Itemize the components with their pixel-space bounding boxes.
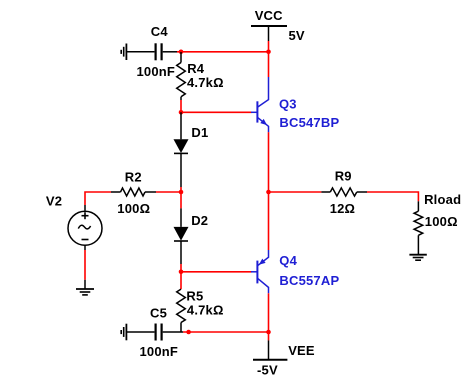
source V2 — [46, 193, 102, 250]
svg-text:C4: C4 — [151, 24, 169, 39]
node bottom right junction — [266, 330, 271, 335]
svg-text:BC547BP: BC547BP — [279, 115, 339, 130]
wire output to R9 — [269, 191, 322, 193]
node junction top right — [266, 50, 271, 55]
svg-text:5V: 5V — [289, 28, 305, 43]
node input junction — [179, 190, 184, 195]
svg-text:4.7kΩ: 4.7kΩ — [187, 75, 224, 90]
svg-text:100Ω: 100Ω — [425, 214, 458, 229]
wire R4 to node — [180, 100, 182, 112]
resistor Rload — [414, 192, 461, 254]
wire D2 to node — [180, 264, 182, 272]
diode D2 — [174, 192, 209, 264]
wire R9 to Rload — [367, 192, 418, 201]
capacitor C4 — [137, 24, 178, 79]
resistor R4 — [177, 52, 224, 100]
wire rail to VEE — [268, 332, 270, 340]
node D1 anode junction — [179, 110, 184, 115]
ground (V2) — [76, 280, 94, 295]
svg-text:VCC: VCC — [255, 8, 283, 23]
wire Q4 collector to rail — [268, 293, 270, 332]
ground (C4) — [121, 44, 154, 61]
wire top rail — [177, 51, 269, 53]
power VCC — [251, 8, 305, 43]
resistor R5 — [177, 272, 224, 332]
wire Q3 emitter to output node — [268, 132, 270, 192]
svg-text:VEE: VEE — [288, 343, 315, 358]
svg-text:100nF: 100nF — [137, 64, 176, 79]
svg-text:100Ω: 100Ω — [117, 201, 150, 216]
wire V2 to R2 — [85, 192, 111, 205]
node bottom left junction — [186, 330, 191, 335]
svg-text:R9: R9 — [335, 168, 352, 183]
svg-text:Q4: Q4 — [279, 253, 297, 268]
ground (C5) — [121, 324, 154, 341]
svg-text:C5: C5 — [150, 305, 167, 320]
wire output node to Q4 emitter — [268, 192, 270, 250]
capacitor C5 — [140, 305, 184, 359]
wire V2 to ground — [84, 250, 86, 280]
wire bottom rail — [183, 331, 269, 333]
wire D1 to node — [180, 187, 182, 192]
svg-text:D1: D1 — [191, 125, 208, 140]
wire VCC to top rail — [268, 41, 270, 52]
node output junction — [266, 190, 271, 195]
ground (Rload) — [409, 255, 426, 261]
svg-text:R4: R4 — [187, 61, 205, 76]
svg-text:-5V: -5V — [257, 362, 278, 377]
svg-text:R2: R2 — [125, 170, 142, 185]
transistor Q4 — [251, 250, 339, 293]
resistor R9 — [321, 168, 367, 216]
resistor R2 — [111, 170, 156, 217]
svg-text:R5: R5 — [186, 288, 203, 303]
svg-text:D2: D2 — [191, 213, 208, 228]
wire node to Q3 base — [181, 111, 252, 113]
svg-text:V2: V2 — [46, 193, 62, 208]
svg-text:Q3: Q3 — [279, 97, 297, 112]
svg-text:12Ω: 12Ω — [330, 201, 355, 216]
diode D1 — [174, 112, 209, 187]
wire rail to Q3 collector — [268, 52, 270, 77]
svg-text:BC557AP: BC557AP — [279, 273, 339, 288]
wire R2 to node — [156, 191, 181, 193]
node D2 cathode junction — [179, 270, 184, 275]
transistor Q3 — [251, 77, 339, 132]
wire node to Q4 base — [181, 271, 252, 273]
node junction top left — [179, 50, 184, 55]
svg-text:4.7kΩ: 4.7kΩ — [187, 302, 224, 317]
svg-text:Rload: Rload — [424, 192, 461, 207]
svg-text:100nF: 100nF — [140, 344, 179, 359]
power VEE — [253, 340, 315, 377]
